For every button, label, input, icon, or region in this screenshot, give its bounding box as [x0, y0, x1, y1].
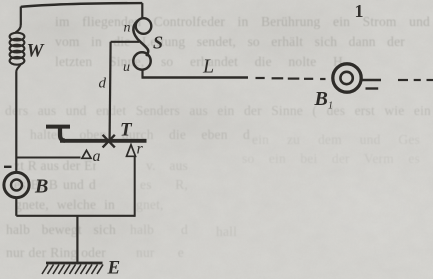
- ground E hatching: [42, 265, 103, 275]
- wire top horizontal: [21, 3, 143, 7]
- wire contact r down to bottom wire: [134, 156, 136, 217]
- minus sign at B1: [366, 87, 379, 89]
- svg-text:L: L: [202, 56, 214, 78]
- bleed-through text row 5: [30, 127, 250, 144]
- wire B to bottom: [15, 198, 17, 216]
- svg-text:B: B: [34, 176, 48, 198]
- bleed-through text row 4: [5, 103, 431, 120]
- svg-text:r: r: [137, 141, 144, 158]
- bleed-through text row 7 right part: [140, 177, 188, 194]
- switch S contact u circle: [133, 52, 150, 69]
- switch S curve: [133, 21, 148, 57]
- bleed-through text row 10: [6, 245, 106, 262]
- svg-text:d: d: [99, 76, 107, 92]
- svg-text:u: u: [123, 60, 130, 75]
- wire branch to contact a: [16, 157, 80, 159]
- meter B1 inner: [340, 72, 352, 84]
- wire from top into n: [141, 3, 143, 18]
- galvanometer B outer: [4, 172, 29, 197]
- svg-text:E: E: [107, 258, 121, 279]
- wire bottom horizontal: [16, 215, 134, 217]
- bleed-through text row 6b right: [242, 151, 420, 168]
- key T lever main bar: [60, 139, 147, 143]
- wire d horizontal to switch: [111, 41, 139, 43]
- bleed-through text row 10 right part: [136, 245, 184, 262]
- svg-text:S: S: [153, 33, 163, 53]
- svg-text:1: 1: [355, 1, 364, 21]
- svg-text:B: B: [314, 88, 328, 110]
- bleed-through text row 6: [14, 158, 96, 175]
- contact r triangle: [127, 145, 136, 157]
- bleed-through text row 8: [15, 197, 115, 214]
- wire u down to L: [141, 69, 143, 77]
- bleed-through text row 6 right part: [146, 158, 188, 175]
- switch S contact n circle: [136, 18, 152, 34]
- bleed-through text row 9: [6, 222, 116, 239]
- bleed-through text row 3: [55, 54, 343, 71]
- bleed-through fragment hall: [216, 224, 242, 241]
- bleed-through text row 8 right part: [136, 197, 186, 214]
- svg-text:W: W: [27, 41, 45, 62]
- bleed-through text row 5b right: [252, 132, 420, 149]
- bleed-through text row 2: [55, 34, 405, 51]
- galvanometer B inner: [11, 180, 22, 191]
- wire top-left corner down to coil: [20, 7, 22, 25]
- svg-text:T: T: [120, 120, 133, 141]
- wire L solid: [142, 76, 249, 78]
- minus sign at B: [4, 166, 12, 168]
- key T lever step: [60, 127, 65, 141]
- meter B1 outer: [333, 64, 361, 92]
- svg-text:n: n: [124, 21, 131, 36]
- svg-text:1: 1: [328, 101, 333, 112]
- svg-text:a: a: [93, 148, 101, 165]
- bleed-through text row 1: [55, 14, 430, 31]
- wire L dashed section: [256, 78, 326, 79]
- bleed-through text row 9 right part: [130, 222, 188, 239]
- wire ground drop: [76, 216, 78, 262]
- wire right of B1: [361, 79, 381, 81]
- ground E line: [46, 262, 103, 265]
- wire left vertical (coil to B): [15, 72, 17, 173]
- wire right dashed section: [398, 79, 433, 81]
- key T lever upper bar: [46, 125, 70, 129]
- bleed-through text row 7: [14, 177, 96, 194]
- inductor W: [10, 24, 25, 72]
- wire d vertical: [110, 42, 111, 139]
- contact a triangle: [82, 150, 91, 158]
- key T pivot cross: [103, 135, 115, 148]
